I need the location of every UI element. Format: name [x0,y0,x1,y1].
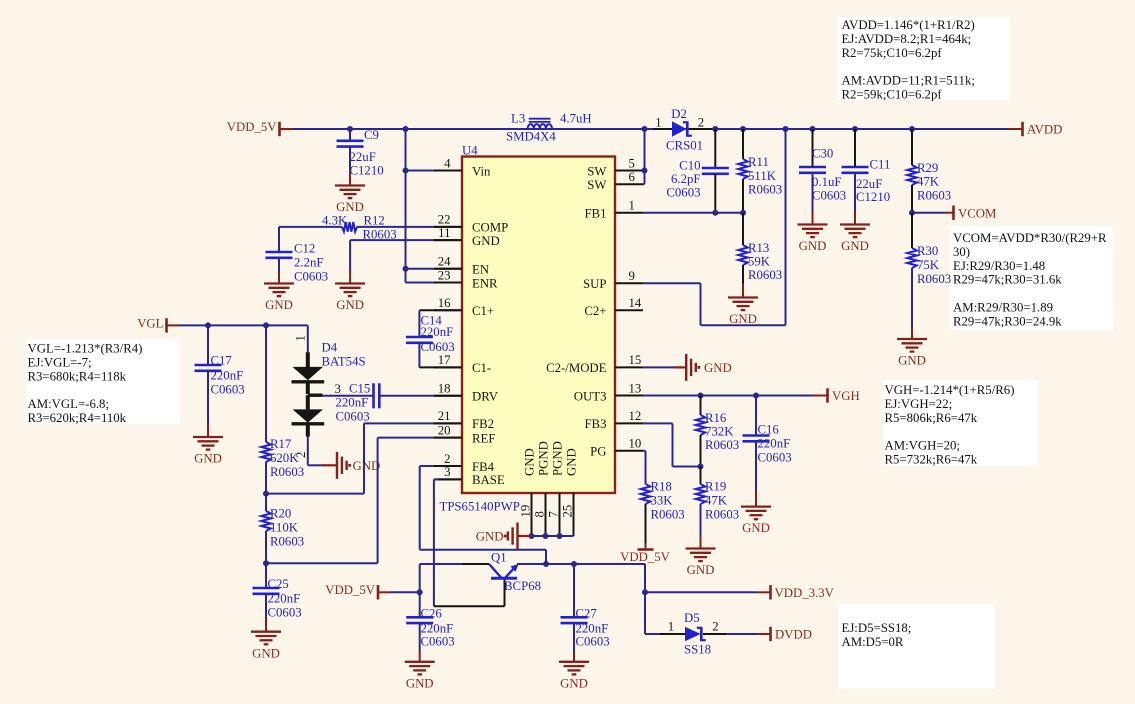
svg-text:22uF: 22uF [350,150,376,164]
svg-text:BCP68: BCP68 [504,579,541,593]
svg-text:C1210: C1210 [350,164,384,178]
svg-text:8: 8 [533,511,547,517]
svg-text:C0603: C0603 [421,635,455,649]
svg-text:R0603: R0603 [270,535,304,549]
svg-text:47K: 47K [917,175,940,189]
svg-text:C0603: C0603 [336,410,370,424]
resistor R13 [738,213,782,284]
svg-text:R11: R11 [748,155,769,169]
wire C15 to DRV pin18 [379,395,462,397]
svg-text:CRS01: CRS01 [666,139,703,153]
pin 9 SUP (right) [583,269,643,291]
port VDD_3.3V [771,585,835,600]
svg-text:C0603: C0603 [576,635,610,649]
svg-text:FB1: FB1 [584,207,606,221]
svg-text:DVDD: DVDD [775,628,812,642]
svg-text:19: 19 [519,505,533,518]
wire C14 to C1- pin17 [419,366,462,368]
svg-text:GND: GND [898,354,926,368]
svg-text:59K: 59K [748,255,771,269]
note VCOM formula [949,226,1113,330]
wire pin5 to riser [643,170,645,172]
ground below C27 [559,652,589,690]
svg-text:C0603: C0603 [666,186,700,200]
svg-text:C9: C9 [364,128,379,142]
junction C9 on rail [347,126,353,132]
svg-text:GND: GND [841,239,869,253]
port VCOM [954,206,997,221]
svg-text:C0603: C0603 [268,606,302,620]
svg-text:C2-/MODE: C2-/MODE [546,361,607,375]
pin 10 PG (right) [590,437,643,459]
svg-text:AM:R29/R30=1.89: AM:R29/R30=1.89 [953,301,1053,315]
svg-text:C15: C15 [349,382,370,396]
resistor R12 [322,214,397,242]
wire OUT3 pin13 to VGH [643,395,827,397]
pin 2 FB4 (left) [434,452,495,474]
svg-text:AM:VGL=-6.8;: AM:VGL=-6.8; [28,397,110,411]
note VGL formula [26,339,180,425]
diode D2 CRS01 [655,107,704,153]
svg-text:R0603: R0603 [917,189,951,203]
junction C11 on rail [852,126,858,132]
resistor R18 [641,480,685,544]
wire FB1 pin1 [643,212,743,214]
svg-text:R20: R20 [270,507,291,521]
pin 15 C2-/MODE (right) [546,353,643,375]
svg-text:SW: SW [587,178,607,192]
inductor L3 [506,111,592,143]
wire D2 cathode to rail [689,128,712,130]
capacitor C27 [561,564,610,652]
pin 5 SW (right) [587,156,643,178]
svg-text:L3: L3 [511,111,525,125]
svg-text:220nF: 220nF [336,396,369,410]
svg-text:DRV: DRV [472,390,499,404]
wire D4 pin3 to C15 [323,395,374,397]
junction C30 on rail [810,126,816,132]
svg-text:30): 30) [953,245,970,259]
junction C10 on rail [712,126,718,132]
wire to VDD_3.3V port [645,591,770,593]
svg-text:SW: SW [587,164,607,178]
svg-text:3: 3 [444,465,450,479]
svg-text:OUT3: OUT3 [574,389,607,403]
svg-text:R18: R18 [651,480,672,494]
svg-text:C0603: C0603 [812,189,846,203]
port VGL [137,316,179,332]
wire COMP pin22 to R12 [357,226,462,228]
svg-text:22: 22 [438,213,451,227]
capacitor C25 [253,563,302,619]
svg-text:7: 7 [547,511,561,518]
svg-text:220nF: 220nF [421,325,454,339]
svg-text:GND: GND [336,298,364,312]
svg-text:D4: D4 [322,341,338,355]
pin 17 C1- (left) [434,353,491,375]
ground below R19 [686,536,716,577]
resistor R17 [261,325,304,493]
svg-text:VDD_5V: VDD_5V [620,550,671,564]
svg-text:EN: EN [472,263,489,277]
svg-text:GND: GND [353,459,381,473]
port VDD_5V (LDO input) [325,583,390,600]
capacitor C26 [406,592,454,652]
pin 19 GND (bottom) [519,448,537,536]
wire VDD_5V port to node [390,591,420,593]
svg-text:R3=680k;R4=118k: R3=680k;R4=118k [28,369,127,383]
port DVDD [771,627,812,642]
svg-text:17: 17 [438,353,451,367]
junction C16 top [753,393,759,399]
resistor R19 [696,467,739,537]
wire output branch down [644,564,646,634]
svg-text:1: 1 [655,115,661,129]
svg-text:AM:VGH=20;: AM:VGH=20; [885,439,960,453]
svg-text:1: 1 [668,620,674,634]
svg-text:EJ:D5=SS18;: EJ:D5=SS18; [842,621,912,635]
ground below C12 [264,272,294,312]
ground flag at D4 [337,452,380,479]
svg-text:C26: C26 [421,607,443,621]
svg-text:GND: GND [265,298,293,312]
svg-text:24: 24 [438,255,451,269]
svg-text:GND: GND [406,676,434,690]
resistor R30 [907,213,951,328]
svg-text:R13: R13 [748,241,769,255]
junction FB1-C10 [712,210,718,216]
svg-text:12: 12 [629,409,642,423]
diode D5 SS18 [668,611,719,657]
svg-text:COMP: COMP [472,221,508,235]
junction pin8 bus [543,533,549,539]
svg-text:22uF: 22uF [856,177,882,191]
svg-text:4.7uH: 4.7uH [560,111,592,125]
wire VDD_5V rail to AVDD [293,128,1008,130]
svg-text:220nF: 220nF [268,592,301,606]
svg-text:C0603: C0603 [294,270,328,284]
junction VCOM node [909,210,915,216]
wire VGL rail [179,324,308,326]
svg-text:GND: GND [729,312,757,326]
svg-text:C25: C25 [268,577,289,591]
wire C1+ pin16 loop [419,310,462,337]
svg-text:R0603: R0603 [651,508,685,522]
svg-text:PGND: PGND [537,441,551,476]
diode D4 BAT54S [292,335,366,458]
pin 25 GND (bottom) [561,448,579,536]
svg-text:R29: R29 [917,161,938,175]
svg-text:2: 2 [698,115,704,129]
junction R16 top [698,393,704,399]
svg-text:GND: GND [687,563,715,577]
capacitor C17 [195,325,245,423]
svg-text:C0603: C0603 [211,383,245,397]
svg-text:C17: C17 [211,354,233,368]
wire AVDD maroon stub [1008,128,1022,130]
svg-text:75K: 75K [917,258,940,272]
junction SW riser on rail [642,126,648,132]
ground flag bottom pins [476,523,518,550]
wire FB4 pin2 net [420,466,546,564]
junction FB1-R11 [740,210,746,216]
wire FB3 pin12 net [643,423,701,466]
pin 12 FB3 (right) [584,409,643,431]
junction R11 on rail [740,126,746,132]
svg-text:VGH: VGH [832,389,860,403]
svg-text:GND: GND [472,234,500,248]
ground below R13 [728,284,758,327]
junction SUP riser on rail [783,126,789,132]
svg-text:TPS65140PWP: TPS65140PWP [440,500,520,514]
svg-text:EJ:AVDD=8.2;R1=464k;: EJ:AVDD=8.2;R1=464k; [842,32,972,46]
ground below C11 [840,211,870,253]
svg-text:C11: C11 [870,158,891,172]
wire GND pin11 down [350,240,462,270]
svg-text:GND: GND [560,676,588,690]
wire SW riser [644,129,646,184]
pin 4 Vin (left) [434,156,491,178]
junction FB4 sense node [543,561,549,567]
svg-text:GND: GND [336,200,364,214]
svg-text:R2=59k;C10=6.2pf: R2=59k;C10=6.2pf [842,88,943,102]
svg-text:GND: GND [252,646,280,660]
svg-text:110K: 110K [270,521,299,535]
svg-text:EJ:R29/R30=1.48: EJ:R29/R30=1.48 [953,259,1045,273]
ground below C26 [405,652,435,690]
svg-text:AM:D5=0R: AM:D5=0R [842,635,904,649]
svg-text:C12: C12 [294,242,315,256]
svg-text:GND: GND [476,530,504,544]
pin 21 FB2 (left) [434,409,494,431]
svg-text:VDD_5V: VDD_5V [325,583,376,597]
pin 6 SW (right) [587,170,643,192]
junction R29 on rail [909,126,915,132]
svg-text:R0603: R0603 [270,465,304,479]
svg-text:FB2: FB2 [472,417,494,431]
ground below C25 [251,618,281,660]
wire BASE pin3 net [434,479,505,606]
svg-text:GND: GND [704,361,732,375]
svg-text:0.1uF: 0.1uF [812,175,842,189]
ground below C30 [798,211,828,253]
svg-text:33K: 33K [651,494,674,508]
svg-text:VGL=-1.213*(R3/R4): VGL=-1.213*(R3/R4) [28,342,143,356]
wire rail to D2 anode [653,128,672,130]
svg-text:D5: D5 [684,611,700,625]
wire to Vin pin 4 [406,170,463,172]
wire to ENR pin 23 [406,282,463,284]
svg-text:VCOM: VCOM [958,206,996,220]
svg-text:FB3: FB3 [584,417,606,431]
svg-text:GND: GND [799,239,827,253]
junction R17 on VGL [263,322,269,328]
svg-text:C16: C16 [758,423,780,437]
wire REF pin20 net [266,438,462,564]
pin 3 BASE (left) [434,465,505,487]
svg-text:R0603: R0603 [748,183,782,197]
wire to D5 anode [645,633,685,635]
resistor R11 [738,129,782,213]
svg-text:SMD4X4: SMD4X4 [506,130,556,144]
svg-text:1: 1 [629,199,635,213]
capacitor C30 [799,129,846,211]
svg-text:16: 16 [438,296,451,310]
svg-text:9: 9 [629,269,635,283]
svg-text:R3=620k;R4=110k: R3=620k;R4=110k [28,411,127,425]
svg-text:2: 2 [444,452,450,466]
svg-text:3: 3 [335,382,341,396]
svg-text:220nF: 220nF [421,622,454,636]
svg-text:220nF: 220nF [211,369,244,383]
port VGH [828,388,860,403]
junction REF node [263,560,269,566]
svg-text:ENR: ENR [472,276,498,290]
svg-text:620K: 620K [270,451,299,465]
svg-text:SS18: SS18 [684,643,711,657]
svg-text:C10: C10 [679,159,700,173]
svg-text:4: 4 [444,156,451,170]
svg-text:VCOM=AVDD*R30/(R29+R: VCOM=AVDD*R30/(R29+R [953,231,1107,245]
wire PG pin10 to R18 [643,451,646,484]
pin 13 OUT3 (right) [574,381,643,403]
svg-text:VDD_3.3V: VDD_3.3V [775,586,835,600]
svg-text:C0603: C0603 [421,340,455,354]
junction C27 node [571,561,577,567]
resistor R16 [696,396,739,467]
svg-text:R30: R30 [917,244,938,258]
ground below C17 [193,423,223,466]
junction VDD_3.3V node [642,589,648,595]
svg-text:R5=732k;R6=47k: R5=732k;R6=47k [885,453,978,467]
svg-text:GND: GND [742,521,770,535]
port VDD_5V (input rail) [227,120,293,136]
svg-text:R0603: R0603 [917,272,951,286]
svg-text:6: 6 [629,170,636,184]
pin 14 C2+ (right) [584,296,643,318]
svg-text:VGH=-1.214*(1+R5/R6): VGH=-1.214*(1+R5/R6) [885,383,1015,397]
svg-text:14: 14 [629,296,642,310]
capacitor C16 [743,396,792,491]
junction EN tap [403,266,409,272]
ground below pin 11 [335,270,365,312]
port VDD_5V below R18 [620,544,671,565]
svg-text:R19: R19 [705,480,726,494]
wire bus to gnd flag [518,535,532,537]
svg-text:R29=47k;R30=31.6k: R29=47k;R30=31.6k [953,273,1062,287]
svg-text:BAT54S: BAT54S [322,355,366,369]
wire FB2 pin21 net [266,423,462,493]
svg-text:5: 5 [629,156,635,170]
junction FB3-R19 node [698,464,704,470]
svg-text:GND: GND [194,452,222,466]
svg-text:GND: GND [565,448,579,476]
wire Q1 emitter to VDD net [517,563,645,565]
svg-text:AVDD: AVDD [1027,123,1062,137]
wire Q1 collector net [420,564,490,592]
note D5 alternatives [838,604,995,689]
pin 18 DRV (left) [434,382,499,404]
svg-text:732K: 732K [705,425,734,439]
svg-text:R2=75k;C10=6.2pf: R2=75k;C10=6.2pf [842,46,943,60]
svg-text:FB4: FB4 [472,460,495,474]
pin 7 PGND (bottom) [547,441,565,536]
svg-text:13: 13 [629,381,642,395]
svg-text:EJ:VGL=-7;: EJ:VGL=-7; [28,355,92,369]
capacitor C10 [666,129,728,213]
transistor Q1 BCP68 [490,551,542,594]
resistor R29 [907,129,951,213]
svg-text:C1+: C1+ [472,304,494,318]
note VGH formula [883,380,1038,467]
svg-text:20: 20 [438,423,451,437]
svg-text:15: 15 [629,353,642,367]
capacitor C12 [266,242,329,284]
wire D5 cathode to DVDD [703,633,770,635]
svg-text:R0603: R0603 [705,438,739,452]
junction pin7 bus [557,533,563,539]
wire R12 to C12 [279,227,342,252]
svg-text:BASE: BASE [472,473,505,487]
wire EN riser [405,129,407,283]
svg-text:PGND: PGND [551,441,565,476]
ground below C16 [741,490,771,535]
svg-text:AM:AVDD=11;R1=511k;: AM:AVDD=11;R1=511k; [842,74,975,88]
svg-text:C1-: C1- [472,361,491,375]
wire VGL to D4 [307,325,309,352]
svg-text:220nF: 220nF [576,622,609,636]
pin 23 ENR (left) [434,268,498,290]
svg-text:D2: D2 [671,107,687,121]
wire pin6 to riser [643,183,645,185]
svg-text:VGL: VGL [137,316,163,330]
port AVDD [1023,122,1063,137]
svg-text:REF: REF [472,431,495,445]
pin 16 C1+ (left) [434,296,494,318]
pin 22 COMP (left) [434,213,508,235]
svg-text:6.2pF: 6.2pF [671,172,701,186]
svg-text:23: 23 [438,268,451,282]
svg-text:PG: PG [590,445,606,459]
svg-text:18: 18 [438,382,451,396]
note AVDD formula [837,17,1010,102]
svg-text:C1210: C1210 [856,190,890,204]
junction pin19 bus [529,533,535,539]
svg-text:R16: R16 [705,411,727,425]
pin 20 REF (left) [434,423,495,445]
svg-text:C0603: C0603 [758,451,792,465]
junction SW pin5 [642,168,648,174]
svg-text:Vin: Vin [472,164,491,178]
svg-text:2: 2 [712,620,718,634]
capacitor C11 [842,129,891,211]
svg-text:11: 11 [438,226,450,240]
svg-text:C27: C27 [576,607,598,621]
svg-text:4.3K: 4.3K [322,214,348,228]
svg-text:R12: R12 [364,214,385,228]
wire D4 to gnd flag [308,437,337,466]
IC U4 TPS65140PWP body [440,144,616,514]
svg-text:220nF: 220nF [758,437,791,451]
svg-text:21: 21 [438,409,451,423]
junction FB2 node [263,491,269,497]
svg-text:GND: GND [523,448,537,476]
wire bottom pins bus [532,535,574,537]
ground below R30 [897,328,927,368]
ground flag at pin 15 [686,354,732,381]
wire VCOM node [912,212,953,214]
ground below C9 [335,171,365,214]
